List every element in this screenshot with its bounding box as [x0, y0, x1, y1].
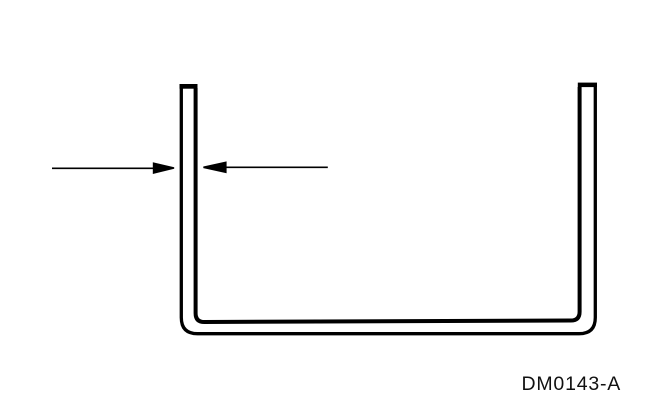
left wall top cap	[180, 84, 198, 89]
right dimension arrowhead	[203, 161, 226, 173]
right wall top cap	[578, 83, 597, 88]
U-channel inner contour	[196, 87, 580, 322]
U-channel outer contour	[181, 84, 595, 334]
right dimension arrow line	[225, 166, 328, 168]
left dimension arrowhead	[153, 162, 174, 174]
figure label DM0143-A	[522, 373, 622, 396]
left dimension arrow line	[52, 167, 157, 169]
